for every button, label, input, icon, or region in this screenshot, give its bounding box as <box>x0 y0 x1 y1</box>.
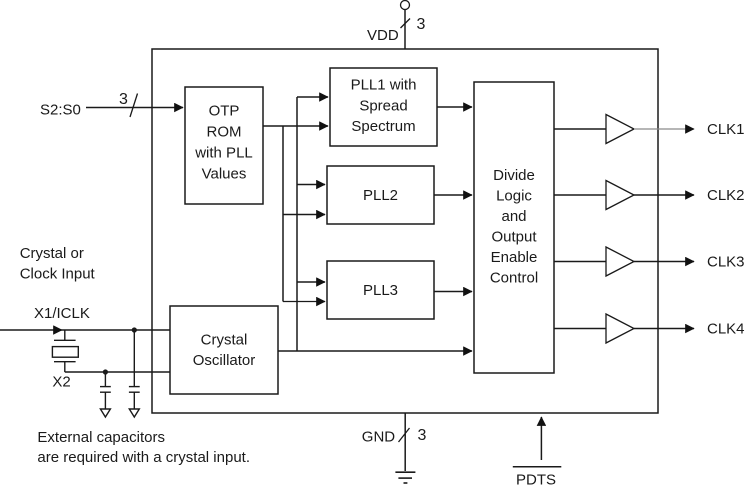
svg-text:PLL1 with: PLL1 with <box>351 77 417 94</box>
capacitor C2 <box>129 330 140 417</box>
wire PLL2 output to divide logic <box>434 194 472 196</box>
wire vertical bus B (reference clock) <box>296 97 298 351</box>
pin VDD circle <box>401 1 410 10</box>
block PLL3 <box>327 261 434 319</box>
svg-text:Logic: Logic <box>496 188 532 205</box>
buffer CLK3 <box>606 247 634 276</box>
svg-text:CLK2: CLK2 <box>707 187 745 204</box>
svg-text:Divide: Divide <box>493 167 535 184</box>
wire divide logic to CLK2 buffer <box>554 194 606 196</box>
wire GND pin <box>404 413 406 471</box>
block PLL2 <box>327 166 434 224</box>
wire OTP ROM output to PLL1 lower input <box>263 125 328 127</box>
svg-text:with PLL: with PLL <box>194 145 253 162</box>
wire S2:S0 input <box>86 107 183 109</box>
block Crystal Oscillator <box>170 306 278 394</box>
svg-text:Spectrum: Spectrum <box>351 118 415 135</box>
wire divide logic to CLK4 buffer <box>554 328 606 330</box>
wire vertical bus A (OTP values) <box>282 126 284 302</box>
svg-text:3: 3 <box>417 16 426 33</box>
svg-text:X2: X2 <box>52 374 70 391</box>
svg-text:CLK3: CLK3 <box>707 254 745 271</box>
buffer CLK2 <box>606 181 634 210</box>
outer box (chip boundary) <box>152 49 658 413</box>
svg-text:GND: GND <box>362 429 396 446</box>
svg-text:Crystal: Crystal <box>201 332 248 349</box>
svg-text:Output: Output <box>491 229 537 246</box>
wire CLK2 output <box>634 194 694 196</box>
svg-text:Values: Values <box>202 166 247 183</box>
wire PLL3 upper input <box>297 281 325 283</box>
bus slash VDD (3) <box>401 19 411 29</box>
wire PLL2 upper input <box>297 184 325 186</box>
svg-text:External capacitors: External capacitors <box>37 429 165 446</box>
svg-text:3: 3 <box>119 91 128 108</box>
crystal Y1 <box>52 330 78 372</box>
capacitor C1 <box>100 372 111 417</box>
pin PDTS arrow <box>540 417 542 460</box>
svg-text:Oscillator: Oscillator <box>193 352 256 369</box>
wire X2 to crystal oscillator <box>65 371 170 373</box>
node X1 junction <box>132 327 137 332</box>
bus slash S2:S0 (3) <box>130 94 138 118</box>
svg-text:CLK1: CLK1 <box>707 121 745 138</box>
buffer CLK1 <box>606 115 634 144</box>
svg-text:PLL3: PLL3 <box>363 282 398 299</box>
svg-text:Clock Input: Clock Input <box>20 266 96 283</box>
block Divide Logic and Output Enable Control <box>474 82 554 373</box>
PDTS overline <box>513 466 562 468</box>
wire X1/ICLK input <box>0 329 62 331</box>
svg-text:PLL2: PLL2 <box>363 187 398 204</box>
wire CLK3 output <box>634 261 694 263</box>
block PLL1 with Spread Spectrum <box>330 68 437 146</box>
wire CLK4 output <box>634 328 694 330</box>
wire X1 to crystal oscillator <box>62 329 170 331</box>
svg-text:S2:S0: S2:S0 <box>40 102 81 119</box>
svg-text:Spread: Spread <box>359 98 407 115</box>
wire PLL3 lower input <box>283 301 325 303</box>
svg-text:and: and <box>501 208 526 225</box>
wire VDD to box <box>404 10 406 50</box>
svg-text:CLK4: CLK4 <box>707 321 745 338</box>
svg-text:3: 3 <box>418 427 427 444</box>
svg-text:Crystal or: Crystal or <box>20 245 84 262</box>
wire crystal oscillator output to divide logic <box>278 350 472 352</box>
svg-text:Enable: Enable <box>491 249 538 266</box>
buffer CLK4 <box>606 314 634 343</box>
svg-text:are required with a crystal in: are required with a crystal input. <box>37 449 250 466</box>
block OTP ROM with PLL Values <box>185 87 263 204</box>
bus slash GND (3) <box>399 428 410 442</box>
wire PLL1 upper input <box>297 96 328 98</box>
wire divide logic to CLK1 buffer <box>554 128 606 130</box>
wire PLL1 output to divide logic <box>437 106 472 108</box>
svg-text:PDTS: PDTS <box>516 472 556 488</box>
svg-text:ROM: ROM <box>207 124 242 141</box>
svg-text:OTP: OTP <box>209 103 240 120</box>
svg-text:X1/ICLK: X1/ICLK <box>34 305 90 322</box>
wire divide logic to CLK3 buffer <box>554 261 606 263</box>
wire PLL2 lower input <box>283 214 325 216</box>
wire PLL3 output to divide logic <box>434 291 472 293</box>
ground symbol <box>395 472 415 483</box>
node X2 junction <box>103 369 108 374</box>
svg-text:VDD: VDD <box>367 27 399 44</box>
svg-text:Control: Control <box>490 270 538 287</box>
wire CLK1 output <box>634 128 694 130</box>
